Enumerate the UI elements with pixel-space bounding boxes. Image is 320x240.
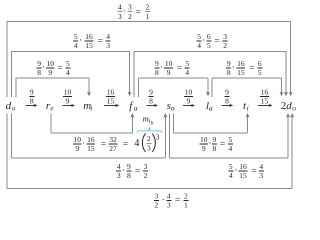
svg-text:1: 1 bbox=[184, 201, 188, 210]
node re bbox=[46, 100, 54, 113]
node 2do bbox=[281, 100, 297, 113]
label fourth: 5/4 * 16/15 = 4/3 bbox=[73, 32, 111, 50]
label minor third re-fa: 10/9 * 16/15 = 32/27 bbox=[73, 135, 128, 153]
svg-text:16: 16 bbox=[237, 59, 245, 68]
svg-text:10: 10 bbox=[185, 87, 193, 96]
bracket so to 2do (fourth) bbox=[170, 113, 291, 158]
svg-text:·: · bbox=[42, 63, 45, 73]
svg-text:9: 9 bbox=[202, 144, 206, 153]
svg-text:5: 5 bbox=[258, 68, 262, 77]
svg-text:5: 5 bbox=[185, 59, 189, 68]
svg-text:2: 2 bbox=[223, 41, 227, 50]
svg-text:9: 9 bbox=[48, 68, 52, 77]
svg-text:9: 9 bbox=[155, 59, 159, 68]
svg-text:=: = bbox=[220, 140, 225, 150]
label third so-ti: 10/9 * 9/8 = 5/4 bbox=[199, 135, 233, 153]
bracket do to so (fifth) bbox=[11, 113, 167, 158]
svg-text:5: 5 bbox=[229, 162, 233, 171]
svg-text:4: 4 bbox=[117, 162, 121, 171]
arrow fa-so ratio 9/8 bbox=[147, 87, 159, 107]
bracket fa to 2do (fifth) bbox=[134, 51, 288, 97]
label fifth fa-2do: 5/4 * 6/5 = 3/2 bbox=[197, 32, 228, 50]
svg-text:3: 3 bbox=[106, 41, 110, 50]
svg-text:=: = bbox=[177, 64, 182, 74]
svg-text:3: 3 bbox=[156, 133, 160, 142]
svg-text:=: = bbox=[57, 64, 62, 74]
svg-text:9: 9 bbox=[75, 144, 79, 153]
svg-text:15: 15 bbox=[85, 41, 93, 50]
arrow so-la ratio 10/9 bbox=[183, 87, 195, 107]
svg-text:i: i bbox=[247, 103, 249, 112]
svg-text:10: 10 bbox=[165, 59, 173, 68]
arrow re-mi ratio 10/9 bbox=[63, 87, 76, 107]
expression 4(2/3)^3 bbox=[134, 133, 159, 153]
overbrace (cyan) under mi-flat bbox=[137, 127, 162, 132]
svg-text:8: 8 bbox=[127, 171, 131, 180]
arrow ti-2do ratio 16/15 bbox=[258, 87, 273, 107]
svg-text:9: 9 bbox=[37, 59, 41, 68]
svg-text:16: 16 bbox=[107, 87, 115, 96]
svg-text:=: = bbox=[175, 196, 180, 206]
svg-text:=: = bbox=[101, 140, 106, 150]
svg-text:1: 1 bbox=[146, 12, 150, 21]
svg-text:8: 8 bbox=[155, 68, 159, 77]
svg-text:2: 2 bbox=[184, 192, 188, 201]
label fourth so-2do: 5/4 * 16/15 = 4/3 bbox=[228, 162, 263, 180]
svg-text:15: 15 bbox=[239, 171, 247, 180]
bracket do to mi (major third) bbox=[16, 78, 91, 97]
svg-text:3: 3 bbox=[118, 12, 122, 21]
svg-text:·: · bbox=[79, 36, 82, 46]
svg-text:9: 9 bbox=[225, 87, 229, 96]
node mi bbox=[83, 100, 92, 113]
svg-text:4: 4 bbox=[66, 68, 70, 77]
svg-text:·: · bbox=[82, 139, 85, 149]
svg-text:4: 4 bbox=[185, 68, 189, 77]
svg-text:10: 10 bbox=[74, 135, 82, 144]
svg-text:9: 9 bbox=[127, 162, 131, 171]
svg-text:10: 10 bbox=[64, 87, 72, 96]
svg-text:·: · bbox=[234, 166, 237, 176]
node do bbox=[6, 100, 16, 113]
svg-text:16: 16 bbox=[87, 135, 95, 144]
svg-text:15: 15 bbox=[237, 68, 245, 77]
svg-text:=: = bbox=[135, 167, 140, 177]
label octave bottom: 3/2 * 4/3 = 2/1 bbox=[154, 192, 189, 210]
svg-text:9: 9 bbox=[66, 97, 70, 106]
svg-text:16: 16 bbox=[261, 87, 269, 96]
arrow la-ti ratio 9/8 bbox=[222, 87, 234, 107]
svg-text:8: 8 bbox=[30, 97, 34, 106]
svg-text:27: 27 bbox=[109, 144, 117, 153]
svg-text:3: 3 bbox=[259, 171, 263, 180]
svg-text:·: · bbox=[232, 63, 235, 73]
svg-text:9: 9 bbox=[213, 135, 217, 144]
svg-text:·: · bbox=[122, 166, 125, 176]
node so bbox=[167, 100, 175, 113]
svg-text:9: 9 bbox=[167, 68, 171, 77]
svg-text:4: 4 bbox=[106, 32, 110, 41]
svg-text:3: 3 bbox=[147, 143, 151, 152]
svg-text:2: 2 bbox=[146, 3, 150, 12]
svg-text:5: 5 bbox=[229, 135, 233, 144]
svg-text:3: 3 bbox=[144, 162, 148, 171]
svg-text:·: · bbox=[208, 139, 211, 149]
svg-text:·: · bbox=[202, 36, 205, 46]
bracket do to fa (fourth) bbox=[12, 51, 132, 97]
svg-text:5: 5 bbox=[74, 32, 78, 41]
label mi-flat (m_i_b) bbox=[143, 114, 154, 127]
svg-text:=: = bbox=[251, 167, 256, 177]
svg-text:4: 4 bbox=[118, 3, 122, 12]
svg-text:3: 3 bbox=[117, 171, 121, 180]
arrow do-re ratio 9/8 bbox=[26, 87, 38, 107]
svg-text:9: 9 bbox=[149, 87, 153, 96]
svg-text:10: 10 bbox=[200, 135, 208, 144]
svg-text:5: 5 bbox=[197, 32, 201, 41]
svg-text:6: 6 bbox=[258, 59, 262, 68]
svg-text:16: 16 bbox=[85, 32, 93, 41]
bracket so to ti (major third) bbox=[173, 113, 249, 133]
svg-text:8: 8 bbox=[213, 144, 217, 153]
label third do-mi: 9/8 * 10/9 = 5/4 bbox=[37, 59, 71, 77]
svg-text:3: 3 bbox=[167, 201, 171, 210]
svg-text:=: = bbox=[123, 140, 128, 150]
svg-text:i: i bbox=[90, 103, 92, 112]
bracket la to 2do (minor third) bbox=[212, 78, 284, 97]
svg-text:4: 4 bbox=[197, 41, 201, 50]
svg-text:=: = bbox=[136, 7, 141, 17]
svg-text:8: 8 bbox=[149, 97, 153, 106]
svg-text:10: 10 bbox=[46, 59, 54, 68]
svg-text:2: 2 bbox=[128, 12, 132, 21]
svg-text:6: 6 bbox=[207, 32, 211, 41]
label third fa-la: 9/8 * 10/9 = 5/4 bbox=[154, 59, 189, 77]
svg-text:5: 5 bbox=[207, 41, 211, 50]
svg-text:2: 2 bbox=[144, 171, 148, 180]
label fifth do-so: 4/3 * 9/8 = 3/2 bbox=[116, 162, 148, 180]
svg-text:4: 4 bbox=[134, 138, 139, 149]
svg-text:4: 4 bbox=[167, 192, 171, 201]
svg-text:8: 8 bbox=[37, 68, 41, 77]
label octave top: 4/3 * 3/2 = 2/1 bbox=[117, 3, 149, 21]
svg-text:15: 15 bbox=[87, 144, 95, 153]
svg-text:9: 9 bbox=[187, 97, 191, 106]
bracket do to 2do (octave) top bbox=[7, 22, 293, 97]
bracket fa to la (major third) bbox=[138, 78, 210, 97]
svg-text:4: 4 bbox=[229, 144, 233, 153]
svg-text:=: = bbox=[249, 64, 254, 74]
svg-text:o: o bbox=[171, 103, 175, 112]
svg-text:9: 9 bbox=[227, 59, 231, 68]
svg-text:4: 4 bbox=[229, 171, 233, 180]
label minor third la-2do: 9/8 * 16/15 = 6/5 bbox=[226, 59, 262, 77]
node fa bbox=[129, 100, 138, 113]
svg-text:4: 4 bbox=[74, 41, 78, 50]
svg-text:a: a bbox=[134, 103, 138, 112]
bracket re to fa (minor third 32/27) bbox=[51, 113, 134, 133]
svg-text:32: 32 bbox=[109, 135, 117, 144]
svg-text:b: b bbox=[151, 121, 154, 127]
svg-text:5: 5 bbox=[66, 59, 70, 68]
svg-text:o: o bbox=[292, 103, 296, 112]
svg-text:·: · bbox=[160, 63, 163, 73]
svg-text:o: o bbox=[12, 103, 16, 112]
arrow mi-fa ratio 16/15 bbox=[104, 87, 119, 107]
svg-text:=: = bbox=[214, 37, 219, 47]
svg-text:·: · bbox=[162, 196, 165, 206]
svg-text:·: · bbox=[123, 7, 126, 17]
svg-text:a: a bbox=[209, 103, 213, 112]
svg-text:2: 2 bbox=[155, 201, 159, 210]
svg-text:9: 9 bbox=[30, 87, 34, 96]
svg-text:=: = bbox=[98, 37, 103, 47]
svg-text:2: 2 bbox=[147, 134, 151, 143]
svg-text:3: 3 bbox=[128, 3, 132, 12]
bracket do to 2do (octave) bottom bbox=[7, 113, 294, 188]
svg-text:8: 8 bbox=[227, 68, 231, 77]
node ti bbox=[243, 100, 249, 113]
svg-text:4: 4 bbox=[259, 162, 263, 171]
svg-text:3: 3 bbox=[223, 32, 227, 41]
svg-text:15: 15 bbox=[107, 97, 115, 106]
svg-text:8: 8 bbox=[225, 97, 229, 106]
node la bbox=[206, 100, 213, 113]
svg-text:15: 15 bbox=[261, 97, 269, 106]
svg-text:3: 3 bbox=[155, 192, 159, 201]
svg-text:16: 16 bbox=[239, 162, 247, 171]
